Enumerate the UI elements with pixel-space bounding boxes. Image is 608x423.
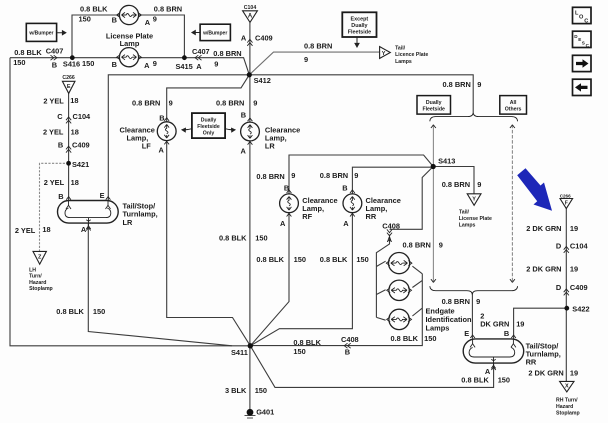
svg-text:C409: C409	[255, 34, 273, 43]
terminal chevron A of tail LR wire	[86, 227, 90, 230]
wire A(LR) return to S411	[88, 224, 232, 346]
svg-text:0.8 BRN: 0.8 BRN	[320, 171, 348, 180]
svg-text:3 BLK: 3 BLK	[225, 386, 247, 395]
wire right column C266 to RH stoplamp	[565, 207, 567, 381]
svg-text:0.8 BRN: 0.8 BRN	[403, 241, 431, 250]
filament Clearance RF	[287, 197, 292, 211]
lamp Clearance RR	[343, 194, 362, 213]
ground G401	[245, 409, 256, 418]
connector C104 chevrons right column	[564, 247, 569, 253]
svg-text:9: 9	[476, 297, 480, 306]
triangle C266 F right column	[560, 199, 573, 209]
svg-text:B: B	[342, 183, 347, 192]
svg-text:License Plate: License Plate	[459, 216, 492, 222]
svg-text:Dually: Dually	[201, 117, 217, 123]
svg-text:E: E	[100, 191, 105, 200]
svg-text:DK GRN: DK GRN	[480, 320, 509, 329]
terminal chevron B clearance RF	[287, 190, 292, 193]
svg-text:S416: S416	[63, 60, 80, 69]
node S416	[70, 55, 75, 60]
option branch top chevrons	[431, 125, 515, 128]
svg-text:150: 150	[293, 347, 305, 356]
svg-text:9: 9	[477, 180, 481, 189]
wire A(RR) return to S411	[250, 346, 493, 388]
svg-text:9: 9	[439, 241, 443, 250]
connector C408 chevrons on S411 wire	[344, 343, 350, 348]
svg-text:C409: C409	[570, 283, 588, 292]
svg-text:Turn/: Turn/	[29, 274, 42, 280]
svg-text:G401: G401	[256, 408, 274, 417]
svg-text:E: E	[67, 84, 71, 90]
button DESC	[573, 31, 592, 48]
svg-text:B: B	[58, 140, 63, 149]
svg-text:Hazard: Hazard	[29, 280, 46, 286]
svg-text:Fleetside: Fleetside	[422, 107, 445, 113]
svg-text:150: 150	[255, 234, 267, 243]
svg-text:C104: C104	[244, 5, 257, 11]
svg-text:B: B	[112, 16, 117, 25]
svg-text:C408: C408	[382, 221, 400, 230]
filament Endgate 1	[391, 260, 408, 265]
svg-text:X: X	[565, 384, 569, 390]
svg-text:Stoplamp: Stoplamp	[556, 410, 580, 416]
lamp License Plate Lamp bottom	[119, 48, 138, 67]
option branch bottom hooks	[431, 279, 515, 282]
terminal chevron A clearance RF	[287, 213, 292, 216]
lamp License Plate Lamp top	[119, 5, 138, 24]
svg-text:LR: LR	[265, 142, 276, 151]
svg-text:Dually: Dually	[351, 23, 367, 29]
svg-text:S411: S411	[231, 348, 248, 357]
connector C409 chevrons right column	[564, 289, 569, 295]
svg-text:w/Bumper: w/Bumper	[28, 31, 53, 37]
svg-text:2 DK GRN: 2 DK GRN	[528, 368, 563, 377]
svg-text:D: D	[556, 241, 562, 250]
wire license plate bus y57.7 S416-S415 to S412	[10, 58, 249, 75]
triangle X RH stoplamp	[560, 381, 574, 392]
node S411	[248, 343, 253, 348]
terminal chevron endgate lamps left/right	[386, 261, 412, 323]
svg-text:0.8 BLK: 0.8 BLK	[80, 5, 108, 14]
svg-text:0.8 BLK: 0.8 BLK	[256, 255, 284, 264]
svg-text:0.8 BRN: 0.8 BRN	[304, 41, 332, 50]
svg-text:A: A	[343, 219, 349, 228]
svg-text:Hazard: Hazard	[556, 404, 573, 410]
filament Endgate 2	[391, 288, 407, 293]
filament License top	[122, 12, 137, 17]
svg-text:Dually: Dually	[426, 100, 442, 106]
svg-text:C104: C104	[570, 241, 589, 250]
button prev arrow	[573, 79, 592, 95]
svg-text:Stoplamp: Stoplamp	[29, 286, 53, 292]
node S412	[247, 72, 252, 77]
lamp assembly Tail/Stop/Turnlamp LR	[58, 201, 119, 230]
svg-text:B: B	[159, 114, 164, 123]
svg-text:9: 9	[304, 55, 308, 64]
connector C409 chevrons on main vertical	[247, 39, 252, 45]
svg-text:S412: S412	[254, 76, 271, 85]
box Dually Fleetside option	[417, 96, 451, 115]
wire S412 to Y1 triangle	[249, 52, 379, 75]
lamp Endgate 3	[389, 309, 409, 329]
wire brace bottom to E(RR)	[471, 295, 473, 339]
svg-text:A: A	[248, 14, 253, 20]
wire main vertical C104-S412-S411-G401	[249, 22, 251, 409]
svg-text:B: B	[52, 61, 57, 70]
svg-text:A: A	[144, 61, 150, 70]
svg-text:0.8 BRN: 0.8 BRN	[443, 80, 471, 89]
svg-text:19: 19	[570, 224, 578, 233]
svg-text:0.8 BLK: 0.8 BLK	[293, 338, 321, 347]
wire clearance RR feed from S413 and return to S411	[250, 167, 433, 346]
svg-text:18: 18	[42, 225, 50, 234]
svg-text:Lamps: Lamps	[426, 324, 450, 333]
svg-text:A: A	[145, 18, 151, 27]
svg-text:RR: RR	[366, 212, 377, 221]
svg-text:RH Turn/: RH Turn/	[556, 398, 578, 404]
svg-text:A: A	[159, 146, 165, 155]
node S415	[182, 55, 187, 60]
filament Clearance LR	[248, 125, 253, 139]
wire bus y74.8 from E(LR) to option split	[108, 75, 473, 201]
svg-text:Tail/: Tail/	[459, 210, 470, 216]
svg-text:LF: LF	[142, 142, 152, 151]
svg-text:C: C	[57, 112, 63, 121]
svg-text:18: 18	[71, 178, 79, 187]
svg-text:9: 9	[153, 15, 157, 24]
svg-text:Lamps: Lamps	[459, 223, 476, 229]
svg-text:Y: Y	[382, 51, 386, 57]
svg-text:19: 19	[570, 368, 578, 377]
filament Endgate 3	[391, 317, 407, 322]
lamp Endgate 1	[389, 253, 410, 274]
svg-text:A: A	[81, 225, 87, 234]
svg-text:18: 18	[70, 96, 78, 105]
svg-text:2 DK GRN: 2 DK GRN	[526, 224, 561, 233]
svg-text:All: All	[510, 100, 517, 106]
svg-text:9: 9	[169, 98, 173, 107]
svg-text:w/Bumper: w/Bumper	[202, 31, 227, 37]
svg-text:LH: LH	[29, 268, 36, 274]
triangle Z LH stoplamp	[33, 251, 46, 264]
svg-text:150: 150	[294, 255, 306, 264]
filament Clearance LF	[164, 124, 169, 138]
box Except Dually Fleetside	[342, 12, 376, 47]
wire C266 column to B(LR)	[68, 93, 70, 200]
svg-text:C104: C104	[73, 112, 92, 121]
svg-text:C409: C409	[72, 140, 90, 149]
connector C408 chevrons vertical endgate feed	[387, 229, 392, 235]
box w/Bumper left	[26, 23, 66, 41]
terminal chevron A clearance LR	[248, 141, 253, 144]
svg-text:9: 9	[153, 59, 157, 68]
wire endgate lamp right taps and return vertical	[250, 266, 422, 345]
svg-text:RF: RF	[302, 212, 312, 221]
svg-text:C408: C408	[341, 335, 359, 344]
svg-text:Others: Others	[505, 107, 522, 113]
svg-text:B: B	[284, 183, 289, 192]
wire clearance RF feed from S413 and return to S411	[250, 155, 433, 346]
svg-text:2 YEL: 2 YEL	[15, 226, 36, 235]
terminal chevron bottom license lamp	[117, 55, 142, 60]
svg-text:150: 150	[93, 307, 105, 316]
wire S422 to B(RR)	[514, 308, 567, 338]
button LOC	[573, 7, 592, 24]
svg-text:150: 150	[356, 255, 368, 264]
wire S413 to C408 endgate feed	[376, 167, 433, 318]
svg-text:C407: C407	[46, 46, 64, 55]
svg-text:150: 150	[424, 334, 436, 343]
terminal chevron B-E of tail LR	[66, 196, 110, 199]
option merge bottom brace	[430, 286, 518, 295]
triangle Y2 tail license lamps	[467, 194, 481, 206]
svg-text:S: S	[582, 41, 585, 46]
svg-text:0.8 BRN: 0.8 BRN	[154, 5, 182, 14]
wire option branch All Others	[511, 125, 513, 282]
svg-text:9: 9	[477, 80, 481, 89]
svg-text:0.8 BRN: 0.8 BRN	[213, 49, 241, 58]
svg-text:9: 9	[354, 171, 358, 180]
terminal chevron E-B of tail RR	[470, 335, 516, 338]
svg-text:Except: Except	[351, 16, 369, 22]
svg-text:18: 18	[71, 127, 79, 136]
svg-text:0.8 BLK: 0.8 BLK	[391, 334, 419, 343]
lamp assembly Tail/Stop/Turnlamp RR	[463, 339, 524, 369]
svg-text:9: 9	[214, 59, 218, 68]
svg-text:S415: S415	[176, 62, 193, 71]
terminal chevron A clearance LF	[164, 141, 169, 144]
svg-text:0.8 BRN: 0.8 BRN	[132, 98, 160, 107]
terminal chevron A clearance RR	[350, 213, 355, 216]
svg-text:19: 19	[516, 320, 524, 329]
wire option branch Dually Fleetside through S413	[432, 125, 434, 282]
connector C407 chevrons at S415	[195, 55, 201, 60]
triangle C266 E left column	[62, 81, 75, 93]
svg-text:150: 150	[82, 59, 94, 68]
option split top brace	[430, 112, 518, 121]
wire top license lamp loop	[72, 15, 184, 58]
button next arrow	[573, 55, 592, 71]
svg-text:A: A	[241, 146, 247, 155]
svg-text:Licence Plate: Licence Plate	[395, 52, 428, 58]
svg-text:RR: RR	[526, 357, 537, 366]
svg-text:Tail/: Tail/	[395, 45, 406, 51]
svg-text:E: E	[464, 329, 469, 338]
lamp Clearance LF	[157, 122, 176, 141]
svg-text:S421: S421	[72, 160, 89, 169]
blue arrow pointer	[517, 168, 552, 211]
svg-text:9: 9	[291, 171, 295, 180]
svg-text:F: F	[565, 201, 568, 207]
connector C104 chevrons on C266 column	[66, 117, 71, 123]
svg-text:Fleetside: Fleetside	[197, 124, 220, 130]
svg-text:B: B	[58, 192, 63, 201]
svg-text:C266: C266	[62, 75, 75, 81]
terminal chevron B clearance LR	[248, 118, 253, 121]
svg-text:C: C	[584, 18, 588, 24]
svg-text:0.8 BLK: 0.8 BLK	[56, 307, 84, 316]
box All Others option	[500, 96, 527, 115]
svg-text:A: A	[196, 62, 202, 71]
svg-text:2 YEL: 2 YEL	[43, 97, 64, 106]
svg-text:0.8 BRN: 0.8 BRN	[442, 180, 470, 189]
wire S421 branch to LH stoplamp triangle	[40, 163, 69, 251]
node S413	[431, 164, 436, 169]
triangle Y1 tail licence lamps	[380, 47, 391, 59]
svg-text:C266: C266	[560, 193, 571, 198]
terminal chevron A of tail RR wire	[491, 367, 495, 370]
svg-text:Fleetside: Fleetside	[348, 30, 371, 36]
svg-text:Lamp: Lamp	[120, 39, 140, 48]
svg-text:0.8 BRN: 0.8 BRN	[256, 172, 284, 181]
svg-text:D: D	[556, 283, 562, 292]
terminal chevron B clearance LF	[164, 118, 169, 121]
svg-text:C407: C407	[192, 47, 210, 56]
svg-text:150: 150	[13, 58, 25, 67]
filament Clearance RR	[350, 197, 355, 211]
svg-text:150: 150	[255, 386, 267, 395]
connector C407 chevrons at S416	[51, 55, 57, 60]
triangle C104 A top	[243, 11, 258, 23]
svg-text:0.8 BLK: 0.8 BLK	[461, 375, 489, 384]
svg-text:2 YEL: 2 YEL	[44, 178, 65, 187]
svg-text:S422: S422	[572, 305, 589, 314]
svg-text:Y: Y	[472, 197, 476, 203]
svg-text:0.8 BRN: 0.8 BRN	[216, 98, 244, 107]
svg-text:A: A	[280, 219, 286, 228]
lamp Clearance LR	[241, 122, 260, 141]
svg-text:2 DK GRN: 2 DK GRN	[526, 265, 561, 274]
svg-text:B: B	[504, 329, 509, 338]
svg-text:LR: LR	[123, 218, 134, 227]
lamp Endgate 2	[389, 280, 409, 300]
svg-text:B: B	[112, 60, 117, 69]
node S422	[564, 306, 569, 311]
box w/Bumper right	[192, 24, 231, 40]
wire endgate lamp left taps	[376, 261, 385, 320]
terminal chevron B clearance RR	[350, 190, 355, 193]
node S421	[66, 161, 71, 166]
svg-text:9: 9	[253, 98, 257, 107]
terminal chevron top license lamp wire at S416	[117, 13, 142, 18]
wire S413 to Y2 triangle	[433, 167, 474, 194]
svg-text:0.8 BLK: 0.8 BLK	[320, 255, 348, 264]
svg-text:A: A	[387, 235, 393, 244]
svg-text:150: 150	[498, 375, 510, 384]
svg-text:B: B	[241, 110, 246, 119]
svg-text:Only: Only	[203, 131, 215, 137]
wire left 0.8 BLK 150 loop to S411	[10, 58, 248, 346]
svg-text:Lamps: Lamps	[395, 59, 412, 65]
svg-text:S413: S413	[438, 157, 455, 166]
svg-text:0.8 BLK: 0.8 BLK	[14, 48, 42, 57]
lamp Clearance RF	[280, 194, 299, 213]
wire S412 to clearance LF and return to S411	[167, 75, 251, 346]
box Dually Fleetside Only	[182, 113, 235, 138]
svg-text:0.8 BRN: 0.8 BRN	[442, 297, 470, 306]
svg-text:19: 19	[570, 265, 578, 274]
svg-text:150: 150	[79, 15, 91, 24]
svg-text:2 YEL: 2 YEL	[43, 127, 64, 136]
svg-text:0.8 BLK: 0.8 BLK	[219, 234, 247, 243]
svg-text:A: A	[241, 34, 247, 43]
svg-text:B: B	[345, 348, 350, 357]
filament License bottom	[122, 55, 137, 60]
connector C409 chevrons on C266 column	[66, 146, 71, 152]
